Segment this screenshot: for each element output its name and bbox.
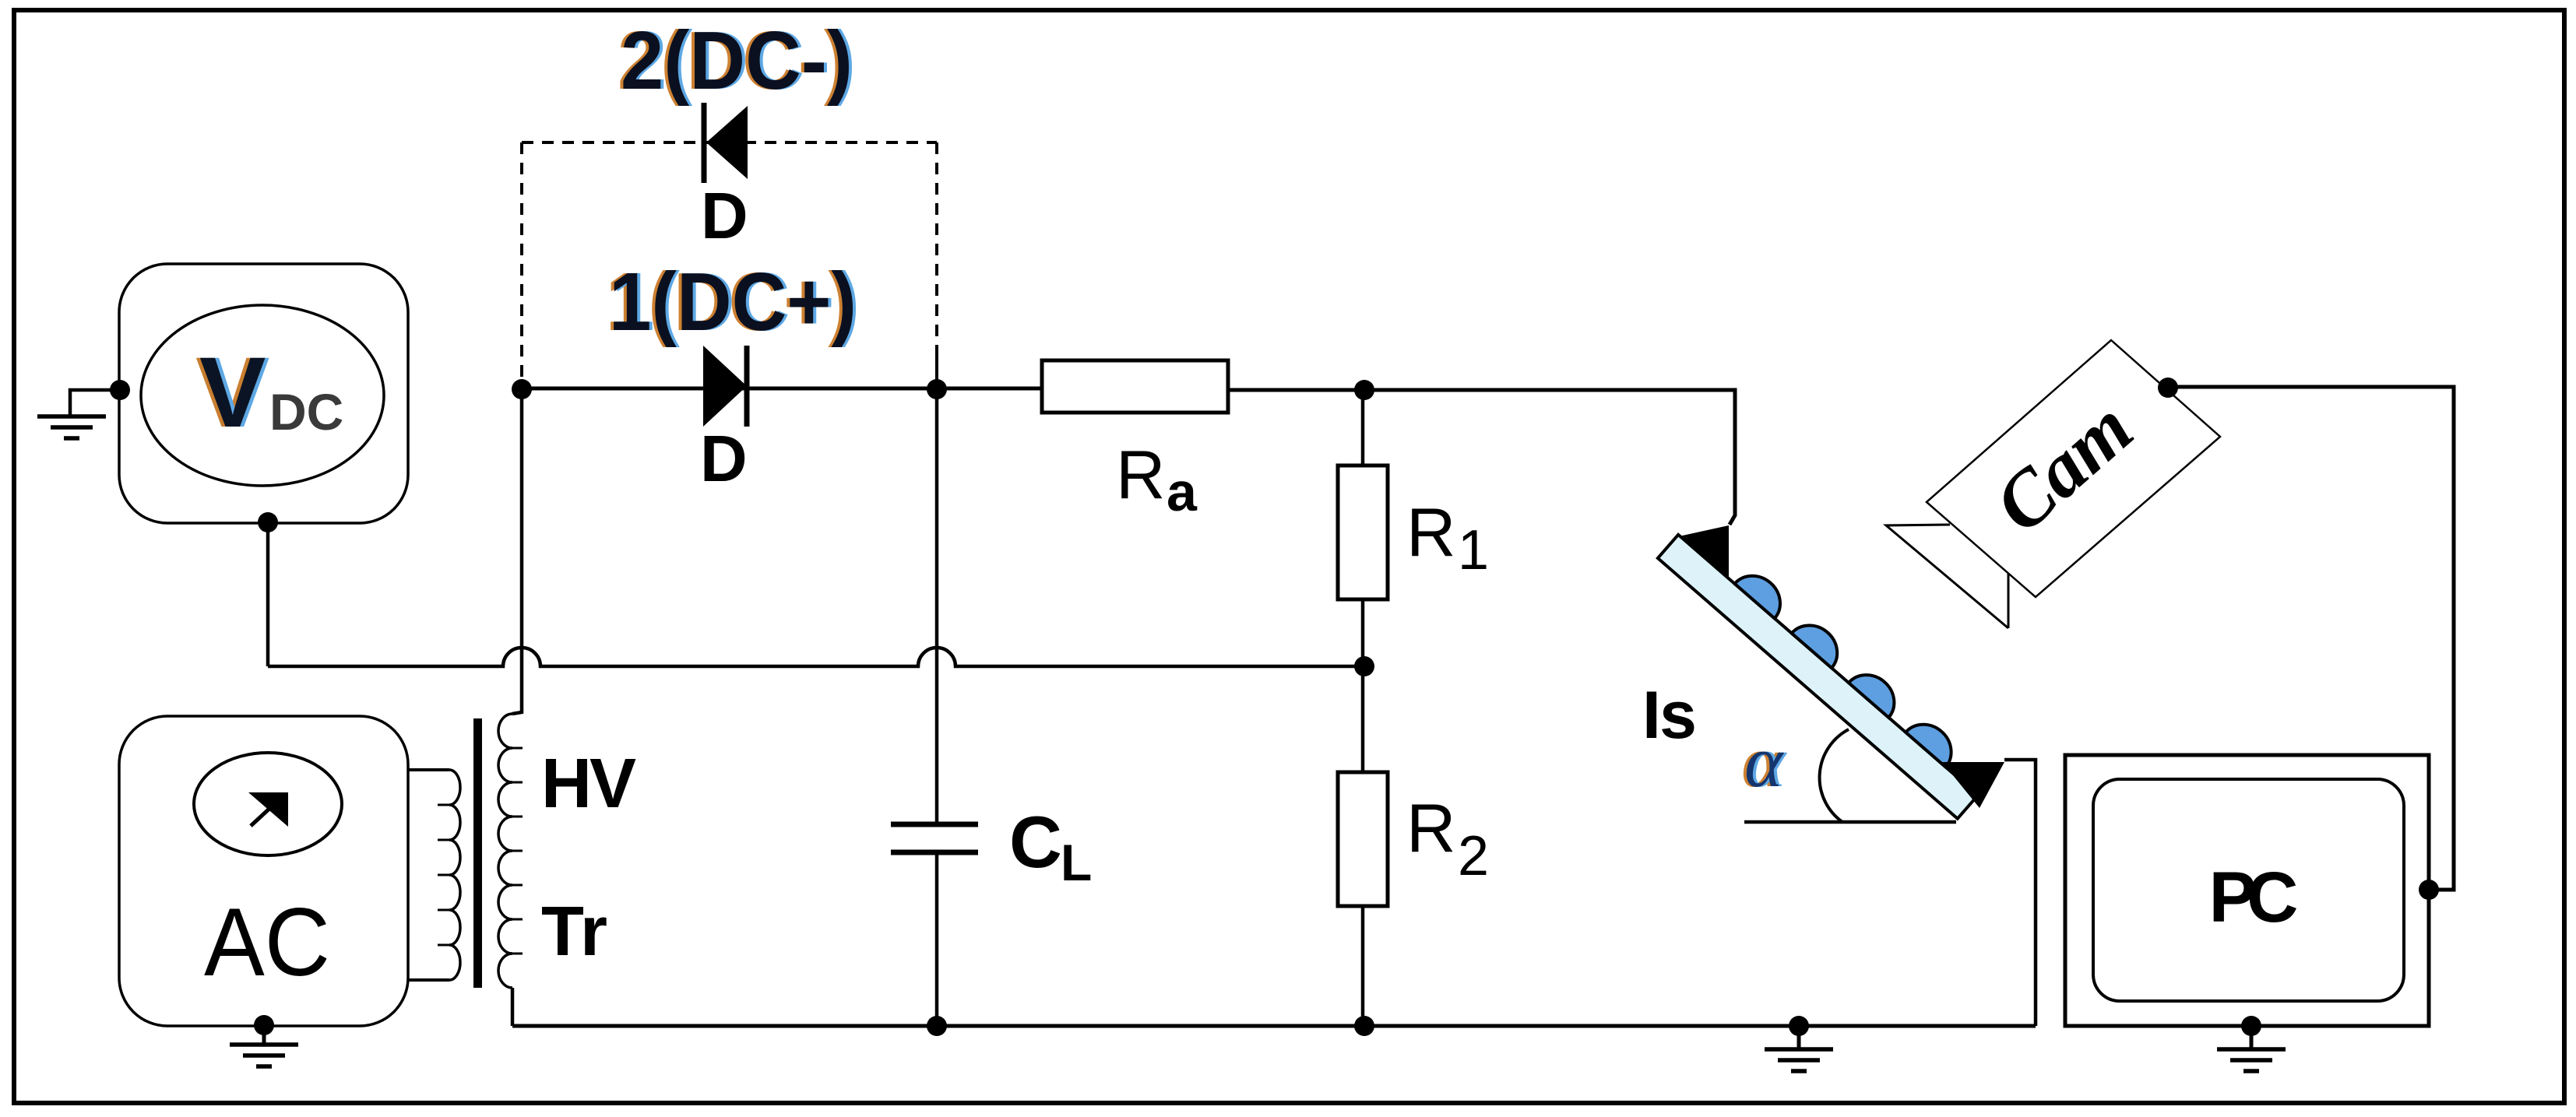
AC meter ellipse — [194, 753, 342, 855]
wire to voltmeter ground — [70, 390, 120, 416]
wire: dashed-box right stub — [935, 350, 938, 389]
baseline under insulator — [1744, 820, 1956, 824]
node: R2 bottom junction — [1354, 1016, 1374, 1036]
svg-text:1: 1 — [1458, 519, 1489, 581]
wire: top bus right of Ra down to insulator — [1228, 390, 1735, 525]
wire: CL bottom lead — [935, 855, 939, 1026]
ground (voltmeter) — [37, 416, 106, 438]
node A: top-left junction — [512, 379, 532, 399]
wire: secondary bottom lead — [511, 988, 515, 1026]
node: AC ground terminal — [254, 1015, 274, 1035]
svg-text:R: R — [1406, 494, 1456, 571]
wire: R1-R2 link — [1361, 599, 1365, 772]
label alpha — [1741, 722, 1787, 803]
angle arc — [1820, 729, 1849, 822]
svg-text:R: R — [1406, 789, 1456, 866]
transformer Tr primary winding — [408, 768, 449, 771]
svg-text:DC: DC — [269, 383, 343, 441]
svg-text:PC: PC — [2209, 858, 2299, 937]
voltmeter VDC box — [119, 264, 408, 523]
svg-text:R: R — [1116, 436, 1166, 513]
PC screen (inner rounded box) — [2093, 779, 2404, 1001]
svg-text:C: C — [1009, 801, 1062, 883]
label Cam — [1978, 384, 2148, 549]
node: camera wire junction — [2158, 378, 2178, 398]
svg-text:AC: AC — [204, 889, 330, 996]
PC outer box — [2065, 755, 2429, 1026]
arrowhead bottom of insulator — [1942, 762, 2004, 808]
wire: measurement wire to R1/R2 node with hops — [268, 648, 1364, 666]
resistor Ra — [1042, 360, 1228, 413]
svg-text:HV: HV — [541, 745, 636, 823]
svg-text:D: D — [701, 179, 748, 252]
svg-text:Is: Is — [1642, 678, 1697, 753]
diode D bottom (1 DC+) — [703, 346, 747, 427]
capacitor CL — [891, 822, 978, 827]
wire: HV secondary top lead — [512, 389, 522, 714]
AC meter needle — [251, 806, 272, 826]
diode D top (reversed, 2 DC-) — [702, 103, 707, 183]
node: PC right junction — [2419, 880, 2439, 900]
wire: R1 top lead — [1361, 390, 1365, 465]
svg-text:D: D — [700, 422, 748, 495]
transformer Tr core — [473, 718, 482, 988]
camera flap — [1886, 525, 2008, 628]
wire: voltmeter lead down — [266, 522, 270, 666]
svg-text:a: a — [1167, 462, 1198, 522]
arrowhead top of insulator — [1679, 525, 1729, 579]
ground (bottom bus) — [1797, 1026, 1801, 1048]
insulator sheds (droplets) — [1735, 565, 1962, 767]
label 1(DC+) — [606, 256, 860, 348]
wire: top bus left of Ra — [522, 387, 1042, 391]
wire: camera to PC loop — [2168, 387, 2454, 890]
transformer Tr secondary winding (HV) — [498, 714, 512, 988]
wire: CL top lead — [935, 389, 939, 822]
label VDC — [195, 337, 343, 448]
node: voltmeter left terminal — [110, 380, 130, 400]
wire: insulator bottom to bus — [2004, 760, 2036, 1026]
svg-text:L: L — [1061, 834, 1092, 891]
svg-text:α: α — [1744, 722, 1784, 803]
svg-text:Tr: Tr — [541, 893, 607, 971]
node: divider tap junction — [1354, 656, 1374, 676]
wire: bottom bus — [512, 1024, 2036, 1028]
node: bus ground junction — [1789, 1016, 1809, 1036]
svg-text:2: 2 — [1458, 825, 1489, 887]
node: voltmeter bottom terminal — [258, 512, 278, 532]
camera Cam box — [1927, 340, 2220, 597]
ground (AC source) — [262, 1025, 266, 1043]
label 2(DC-) — [618, 15, 856, 107]
node B: junction at CL column — [927, 379, 947, 399]
resistor R1 — [1338, 465, 1388, 599]
svg-text:2(DC-): 2(DC-) — [621, 15, 853, 107]
node: PC ground junction — [2241, 1016, 2261, 1036]
insulator Is bar — [1658, 517, 1994, 819]
svg-text:V: V — [199, 337, 266, 448]
resistor R2 — [1338, 772, 1388, 906]
node C: junction at R1 top — [1354, 380, 1374, 400]
svg-text:1(DC+): 1(DC+) — [609, 256, 857, 348]
wire: R2 bottom lead — [1361, 906, 1365, 1026]
voltmeter VDC dial ellipse — [141, 305, 384, 486]
node: CL bottom junction — [927, 1016, 947, 1036]
ground (PC) — [2250, 1026, 2254, 1048]
dashed box around diodes — [522, 142, 937, 378]
AC source box — [119, 716, 408, 1026]
